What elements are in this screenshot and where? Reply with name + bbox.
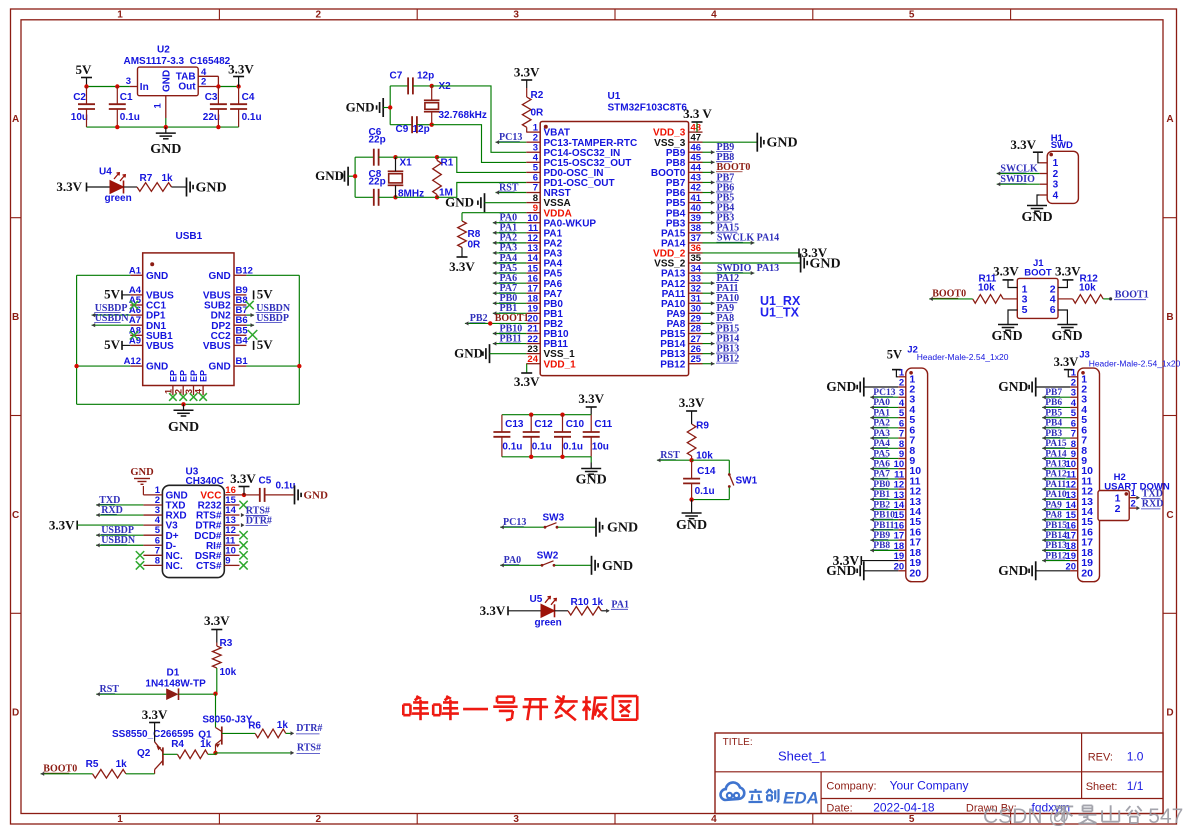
svg-text:GND: GND — [1021, 210, 1052, 225]
no-connect pin10 — [239, 551, 247, 559]
svg-text:6: 6 — [1050, 304, 1056, 316]
net label PB9 — [703, 142, 735, 154]
svg-text:4: 4 — [194, 389, 204, 394]
wire — [413, 85, 432, 87]
svg-text:U1: U1 — [608, 91, 621, 102]
svg-text:2: 2 — [1131, 498, 1136, 509]
pin 11 PA1 — [526, 223, 562, 239]
svg-text:VDD_1: VDD_1 — [544, 359, 577, 370]
net label DTR# — [286, 723, 323, 736]
pin A5 — [129, 295, 167, 312]
svg-text:A: A — [1166, 114, 1173, 125]
junction — [689, 458, 693, 462]
svg-text:0.1u: 0.1u — [532, 442, 552, 453]
net label PB4 — [703, 202, 735, 214]
no-connect pin12 — [239, 531, 247, 539]
svg-text:24: 24 — [527, 354, 538, 365]
net label USBDP — [96, 525, 143, 537]
svg-text:3.3V: 3.3V — [1054, 355, 1079, 369]
net label PA6 — [870, 459, 898, 470]
svg-text:1/1: 1/1 — [1127, 779, 1144, 793]
no-connect B5 — [248, 330, 258, 340]
svg-text:R2: R2 — [531, 90, 544, 101]
svg-text:0.1u: 0.1u — [242, 112, 262, 123]
svg-text:VBUS: VBUS — [203, 341, 231, 352]
net label RST — [496, 182, 527, 194]
transistor Q2 SS8550_C266595 — [112, 728, 194, 774]
svg-text:EP: EP — [179, 370, 189, 382]
svg-text:1k: 1k — [592, 597, 604, 608]
svg-text:GND: GND — [607, 521, 638, 536]
wire — [348, 157, 355, 197]
pin 37 PA14 — [661, 233, 702, 249]
svg-text:3: 3 — [184, 389, 194, 394]
svg-text:REV:: REV: — [1088, 752, 1113, 764]
net label PA7 — [493, 283, 527, 295]
svg-text:B12: B12 — [236, 265, 253, 276]
pin 26 PB13 — [660, 344, 702, 360]
net label PB0 — [870, 480, 898, 491]
svg-text:1: 1 — [1131, 488, 1137, 499]
ground — [703, 254, 841, 273]
pin 3 RXD — [143, 505, 186, 522]
svg-text:S8050-J3Y: S8050-J3Y — [202, 715, 252, 726]
pin 42 PB6 — [666, 183, 703, 199]
ground — [346, 98, 384, 117]
svg-text:5V: 5V — [887, 348, 902, 362]
pin 4 PC15-OSC32_OUT — [526, 153, 631, 169]
pin 1 TXD — [1115, 488, 1163, 505]
svg-text:3.3 V: 3.3 V — [683, 106, 712, 121]
wire — [215, 694, 217, 728]
net label SWDIO PA13 — [703, 263, 780, 275]
svg-text:4: 4 — [1053, 190, 1059, 201]
svg-text:DTR#: DTR# — [296, 723, 322, 734]
net label PB14 — [703, 333, 740, 345]
switch SW1 — [692, 460, 758, 499]
svg-text:PA13: PA13 — [757, 263, 780, 274]
svg-text:2022-04-18: 2022-04-18 — [873, 801, 935, 815]
svg-text:Sheet:: Sheet: — [1086, 781, 1118, 793]
svg-text:R8: R8 — [468, 229, 481, 240]
wire — [390, 85, 408, 87]
svg-text:3.3V: 3.3V — [449, 259, 475, 274]
junction — [388, 105, 392, 109]
ground — [130, 467, 154, 495]
USB connector USB1 — [143, 231, 234, 386]
net label PA10 — [1042, 490, 1070, 501]
svg-text:3.3V: 3.3V — [1055, 264, 1081, 279]
svg-text:GND: GND — [767, 136, 798, 151]
pin 23 VSS_1 — [526, 344, 575, 360]
svg-text:5: 5 — [1022, 304, 1028, 316]
resistor R4 — [171, 739, 211, 759]
svg-text:GND: GND — [130, 467, 154, 478]
header J2 Header-Male-2.54_1x20 — [906, 345, 1009, 582]
power flag 3.3V — [833, 553, 899, 568]
power flag 3.3V — [56, 179, 86, 194]
svg-text:2: 2 — [316, 814, 322, 825]
ground — [445, 193, 526, 212]
wire — [246, 275, 299, 404]
pin stubs J2 — [894, 367, 922, 579]
ground — [454, 344, 526, 363]
net label PA5 — [870, 449, 898, 460]
svg-text:GND: GND — [810, 257, 841, 272]
pin 29 PA8 — [667, 314, 703, 330]
svg-text:PA14: PA14 — [757, 233, 780, 244]
junction — [430, 123, 434, 127]
pin 30 PA9 — [667, 304, 703, 320]
resistor R11 — [973, 274, 1018, 304]
svg-text:3.3V: 3.3V — [514, 65, 540, 80]
red title text 哞哞一号开发板图 — [403, 695, 637, 720]
resistor R9 — [687, 418, 713, 462]
wire — [126, 773, 155, 775]
svg-text:9: 9 — [225, 555, 230, 566]
capacitor C9 — [396, 116, 430, 135]
net label SWCLK — [997, 163, 1040, 175]
pin 1 VBAT — [526, 122, 570, 138]
net label PB1 — [870, 490, 898, 501]
pin A9 — [129, 335, 174, 352]
power flag 3.3V — [230, 471, 256, 495]
ground — [168, 404, 199, 435]
pin 9 CTS# — [196, 555, 240, 572]
net label PB7 — [703, 172, 735, 184]
svg-text:10u: 10u — [592, 442, 609, 453]
pin numbers J1 — [1022, 284, 1056, 317]
net label PA9 — [1042, 500, 1070, 511]
power flag 5V — [254, 286, 274, 301]
pin 33 PA12 — [661, 273, 702, 289]
pin 9 VDDA — [526, 203, 572, 219]
ground — [592, 556, 634, 575]
power flag 3.3V — [514, 364, 540, 389]
pin 11 RI# — [206, 535, 240, 552]
net label USBDN — [92, 313, 131, 327]
net label PB10 — [870, 511, 898, 522]
wire to PD1 — [437, 183, 526, 198]
ground — [315, 167, 348, 186]
wire — [390, 124, 412, 126]
MCU U1 STM32F103C8T6 — [540, 91, 688, 376]
no-connect pin9 — [239, 561, 247, 569]
pin 8 VSSA — [526, 193, 570, 209]
net label USBDN — [246, 303, 290, 317]
pin 31 PA10 — [661, 293, 702, 309]
pin 25 PB12 — [660, 354, 702, 370]
svg-text:1k: 1k — [116, 759, 128, 770]
net label PB3 — [703, 213, 735, 225]
svg-text:VBUS: VBUS — [146, 341, 174, 352]
net label BOOT0 — [41, 764, 93, 776]
net label PA11 — [1042, 480, 1070, 491]
svg-text:Q2: Q2 — [137, 748, 151, 759]
svg-text:STM32F103C8T6: STM32F103C8T6 — [608, 103, 688, 114]
svg-text:GND: GND — [454, 346, 483, 361]
svg-text:A: A — [12, 114, 19, 125]
power flag 5V — [76, 62, 93, 87]
svg-text:green: green — [105, 193, 132, 204]
wire — [208, 753, 216, 754]
no-connect pin8 — [136, 561, 144, 569]
net label PA1 — [870, 408, 898, 419]
svg-text:C4: C4 — [242, 92, 255, 103]
wire — [246, 365, 299, 367]
svg-text:GND: GND — [304, 490, 329, 502]
svg-text:C12: C12 — [534, 419, 553, 430]
resistor R2 — [522, 88, 544, 132]
svg-text:D: D — [12, 708, 19, 719]
svg-text:10k: 10k — [978, 283, 995, 294]
svg-text:1k: 1k — [200, 739, 212, 750]
capacitor C6 — [355, 127, 395, 166]
svg-text:SW3: SW3 — [543, 513, 565, 524]
junction — [297, 364, 301, 368]
capacitor C12 — [523, 415, 553, 457]
pin 2 PC13-TAMPER-RTC — [526, 132, 637, 148]
net label PC13 — [496, 132, 527, 144]
ground — [596, 518, 638, 537]
pin 18 PB0 — [526, 293, 563, 309]
net label PB1 — [493, 303, 527, 315]
title block — [715, 733, 1163, 815]
pin 21 PB10 — [526, 324, 569, 340]
svg-text:C3: C3 — [205, 92, 218, 103]
pin 2 Out — [198, 76, 218, 87]
pin 10 DSR# — [195, 545, 240, 562]
svg-text:20: 20 — [1081, 567, 1093, 579]
logo LCEDA — [721, 782, 819, 807]
svg-text:GND: GND — [576, 473, 607, 488]
crystal X1 — [388, 157, 424, 199]
svg-text:EP: EP — [189, 370, 199, 382]
pin 8 NC. — [143, 555, 183, 572]
net label PA10 — [703, 293, 740, 305]
pin A6 — [129, 305, 166, 322]
svg-text:U4: U4 — [99, 167, 112, 178]
svg-text:3.3V: 3.3V — [480, 603, 506, 618]
net label BOOT0 — [703, 162, 751, 174]
junction — [393, 155, 397, 200]
svg-text:In: In — [140, 82, 149, 93]
wire — [87, 86, 130, 88]
capacitor C3 — [203, 87, 227, 128]
ground — [826, 561, 898, 580]
USB-UART U3 CH340C — [162, 467, 224, 578]
svg-text:A12: A12 — [124, 356, 141, 367]
net label BOOT0 — [929, 289, 973, 301]
net label PA8 — [1042, 511, 1070, 522]
svg-text:20: 20 — [909, 567, 921, 579]
net label PB2 — [870, 500, 898, 511]
wire — [77, 275, 131, 404]
svg-text:U5: U5 — [530, 594, 543, 605]
svg-text:GND: GND — [162, 70, 173, 92]
svg-text:R9: R9 — [696, 421, 709, 432]
resistor R10 — [568, 597, 603, 615]
svg-text:1k: 1k — [162, 173, 174, 184]
net label BOOT1 — [1103, 289, 1149, 300]
svg-text:1: 1 — [117, 814, 123, 825]
junction — [213, 692, 217, 696]
svg-text:3.3V: 3.3V — [56, 179, 82, 194]
svg-text:BOOT1: BOOT1 — [1115, 289, 1149, 300]
pin B4 — [203, 335, 248, 352]
pin 43 PB7 — [666, 173, 703, 189]
net label PB9 — [870, 531, 898, 542]
svg-text:0R: 0R — [468, 240, 482, 251]
capacitor C4 — [230, 87, 262, 128]
pin 14 RTS# — [196, 505, 240, 522]
svg-text:C: C — [1166, 510, 1173, 521]
wire — [77, 365, 131, 367]
pin 7 NRST — [526, 183, 570, 199]
pin 47 VSS_3 — [654, 132, 702, 148]
pin 4 — [1040, 190, 1059, 201]
net label USBDP — [246, 313, 289, 327]
svg-text:SWD: SWD — [1051, 140, 1073, 151]
ground — [1021, 195, 1052, 225]
pin 16 VCC — [200, 485, 243, 502]
power flag 5V — [104, 337, 130, 352]
junction — [529, 413, 565, 417]
net label PA0 — [870, 398, 898, 409]
svg-text:3: 3 — [513, 814, 519, 825]
pin 2 RXD — [1115, 498, 1164, 515]
svg-text:22u: 22u — [203, 112, 220, 123]
junction — [353, 174, 357, 178]
svg-text:C13: C13 — [505, 419, 524, 430]
pin 34 PA13 — [661, 263, 702, 279]
svg-text:3.3V: 3.3V — [142, 707, 168, 722]
svg-text:1: 1 — [163, 389, 173, 394]
svg-text:12p: 12p — [417, 70, 434, 81]
ground — [998, 561, 1070, 580]
net label PB13 — [1042, 541, 1070, 552]
svg-text:4: 4 — [711, 10, 717, 21]
pin 3 PC14-OSC32_IN — [526, 142, 620, 158]
power flag 3.3V — [49, 518, 144, 533]
pin 12 DCD# — [194, 525, 239, 542]
pin 44 BOOT0 — [651, 163, 703, 179]
svg-text:0.1u: 0.1u — [563, 442, 583, 453]
net label PB5 — [1042, 408, 1070, 419]
resistor R12 — [1058, 274, 1103, 304]
svg-text:C10: C10 — [566, 419, 585, 430]
pin 1 GND — [143, 485, 187, 502]
power flag 3.3V — [204, 613, 230, 643]
pin 1 — [1040, 158, 1059, 169]
net label PB11 — [870, 521, 898, 532]
svg-text:B4: B4 — [236, 335, 249, 346]
power flag 3.3V — [993, 264, 1019, 288]
pin 13 PA3 — [526, 243, 562, 259]
net label PB7 — [1042, 388, 1070, 399]
svg-text:Header-Male-2.54_1x20: Header-Male-2.54_1x20 — [1089, 358, 1181, 368]
net label PA7 — [870, 470, 898, 481]
svg-text:C1: C1 — [120, 92, 133, 103]
net label PB6 — [703, 182, 735, 194]
pin B9 — [203, 285, 248, 302]
wire — [172, 186, 187, 188]
net label PB15 — [1042, 521, 1070, 532]
ground — [295, 485, 329, 504]
svg-text:3.3V: 3.3V — [204, 613, 230, 628]
svg-text:5V: 5V — [104, 337, 121, 352]
pin B8 — [204, 295, 248, 312]
wire — [502, 414, 591, 416]
svg-text:GND: GND — [676, 518, 707, 533]
ground — [187, 178, 227, 197]
svg-text:C14: C14 — [697, 466, 716, 477]
svg-text:5V: 5V — [257, 286, 274, 301]
svg-text:1: 1 — [1053, 158, 1059, 169]
svg-text:3: 3 — [513, 10, 519, 21]
svg-text:C5: C5 — [259, 476, 272, 487]
svg-text:1: 1 — [117, 10, 123, 21]
resistor R8 — [458, 213, 527, 254]
pin 4 TAB — [198, 67, 218, 87]
diode D1 1N4148W-TP — [145, 668, 206, 701]
svg-text:3.3V: 3.3V — [514, 374, 540, 389]
pin 12 PA2 — [526, 233, 562, 249]
svg-text:X2: X2 — [439, 81, 452, 92]
pin 38 PA15 — [661, 223, 702, 239]
power flag 3.3V — [703, 245, 828, 260]
svg-text:C9: C9 — [396, 124, 409, 135]
wire to PD0 — [437, 157, 526, 172]
power flag 5V — [104, 286, 130, 301]
pin EP1 — [163, 370, 178, 401]
ground — [703, 133, 798, 152]
net label RXD — [96, 505, 143, 517]
pin 27 PB14 — [660, 334, 702, 350]
svg-text:CTS#: CTS# — [196, 561, 222, 572]
net label PA11 — [703, 283, 739, 295]
svg-text:8: 8 — [155, 555, 160, 566]
ground — [826, 378, 898, 397]
net label PB13 — [703, 343, 740, 355]
net label PB8 — [870, 541, 898, 552]
power flag 3.3V — [578, 391, 604, 415]
svg-text:547: 547 — [1148, 805, 1183, 828]
svg-text:10k: 10k — [220, 667, 237, 678]
svg-text:B1: B1 — [236, 356, 249, 367]
pin 6 D- — [143, 535, 176, 552]
power flag 3.3V — [228, 62, 254, 87]
pin 13 DTR# — [195, 515, 239, 532]
no-connect pin7 — [136, 551, 144, 559]
svg-text:X1: X1 — [400, 158, 413, 169]
net label PB5 — [703, 192, 735, 204]
svg-text:GND: GND — [208, 271, 230, 282]
wire — [87, 126, 239, 128]
net label PB11 — [493, 333, 527, 345]
svg-text:10k: 10k — [1079, 283, 1096, 294]
pin A4 — [129, 285, 174, 302]
resistor R5 — [86, 759, 128, 778]
pin 17 PA7 — [526, 283, 562, 299]
svg-text:BOOT: BOOT — [1024, 268, 1052, 279]
svg-text:TITLE:: TITLE: — [723, 737, 753, 748]
svg-text:GND: GND — [168, 420, 199, 435]
junction — [435, 155, 439, 200]
svg-text:GND: GND — [826, 563, 856, 578]
svg-text:GND: GND — [602, 559, 633, 574]
svg-text:SW1: SW1 — [736, 476, 758, 487]
